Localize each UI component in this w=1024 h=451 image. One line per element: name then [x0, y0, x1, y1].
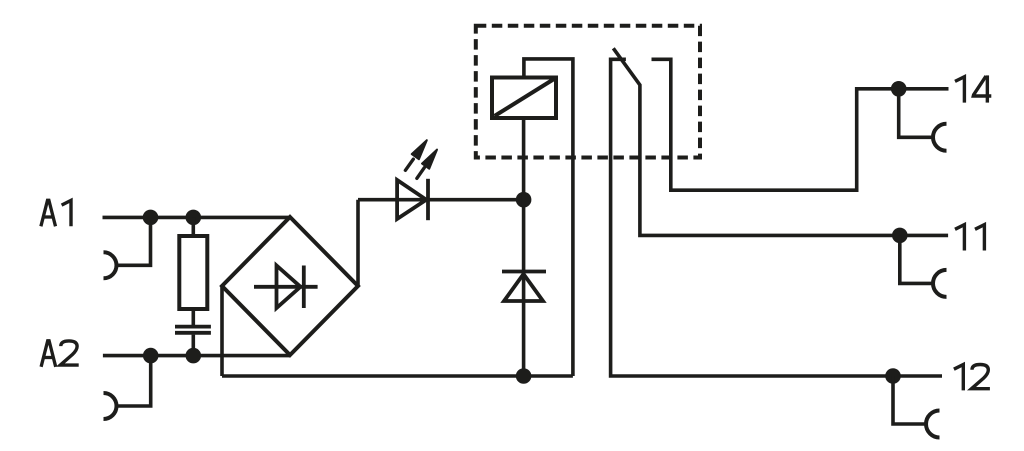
bridge rectifier BR1 diamond	[222, 217, 358, 355]
relay contact: pole line to 12	[611, 59, 942, 376]
junction node 14	[891, 81, 907, 97]
junction node bottom	[516, 368, 532, 384]
wire node to resistor top	[192, 217, 196, 236]
wire bottom run bridge to coil loop	[222, 374, 573, 378]
terminal label 12	[954, 365, 963, 391]
clamp contact A1	[104, 252, 117, 278]
junction node A1-resistor	[186, 210, 202, 226]
clamp contact A2	[104, 393, 117, 419]
terminal label A1	[41, 200, 56, 226]
wire LED line to junction	[358, 198, 524, 202]
LED light arrow 1	[405, 140, 426, 170]
wire 12 to clamp	[893, 376, 926, 424]
terminal label A2	[41, 341, 56, 367]
wire A1 lead to bridge top corner	[103, 216, 291, 220]
wire bridge left corner down (crosses A2 wire)	[220, 286, 224, 376]
terminal label 11	[955, 225, 964, 251]
relay contact blade to 11	[613, 48, 948, 235]
clamp contact 12	[926, 411, 939, 438]
clamp contact 11	[933, 270, 946, 297]
bridge rectifier internal diode	[254, 266, 318, 309]
junction node A2-clamp	[143, 348, 159, 364]
LED D1	[397, 179, 428, 220]
wire clamp A1 to node	[117, 217, 151, 265]
relay enclosure dashed box	[476, 26, 700, 158]
resistor R1	[179, 236, 207, 309]
junction node A2-capacitor	[186, 348, 202, 364]
junction node LED-coil	[516, 192, 532, 208]
wire coil top loop	[524, 59, 573, 376]
wire bridge right corner up to LED wire	[356, 200, 360, 286]
wire resistor bottom to capacitor	[192, 309, 196, 325]
wire capacitor to A2 node	[192, 335, 196, 356]
relay contact NO to 14	[652, 59, 949, 190]
wire clamp A2 to node	[117, 356, 151, 406]
wire 14 to clamp	[899, 89, 933, 138]
wire 11 to clamp	[900, 235, 933, 283]
terminal label 14	[955, 77, 964, 103]
LED light arrow 2	[417, 150, 437, 179]
wire A2 lead to bridge bottom corner	[103, 354, 290, 358]
junction node 12	[885, 368, 901, 384]
clamp contact 14	[933, 124, 946, 151]
relay coil K1	[492, 78, 556, 119]
wire coil bottom through freewheel diode to bottom junction	[522, 118, 526, 376]
junction node 11	[892, 228, 908, 244]
junction node A1-clamp	[143, 210, 159, 226]
freewheeling diode D2	[502, 272, 546, 302]
capacitor C1	[175, 327, 211, 333]
